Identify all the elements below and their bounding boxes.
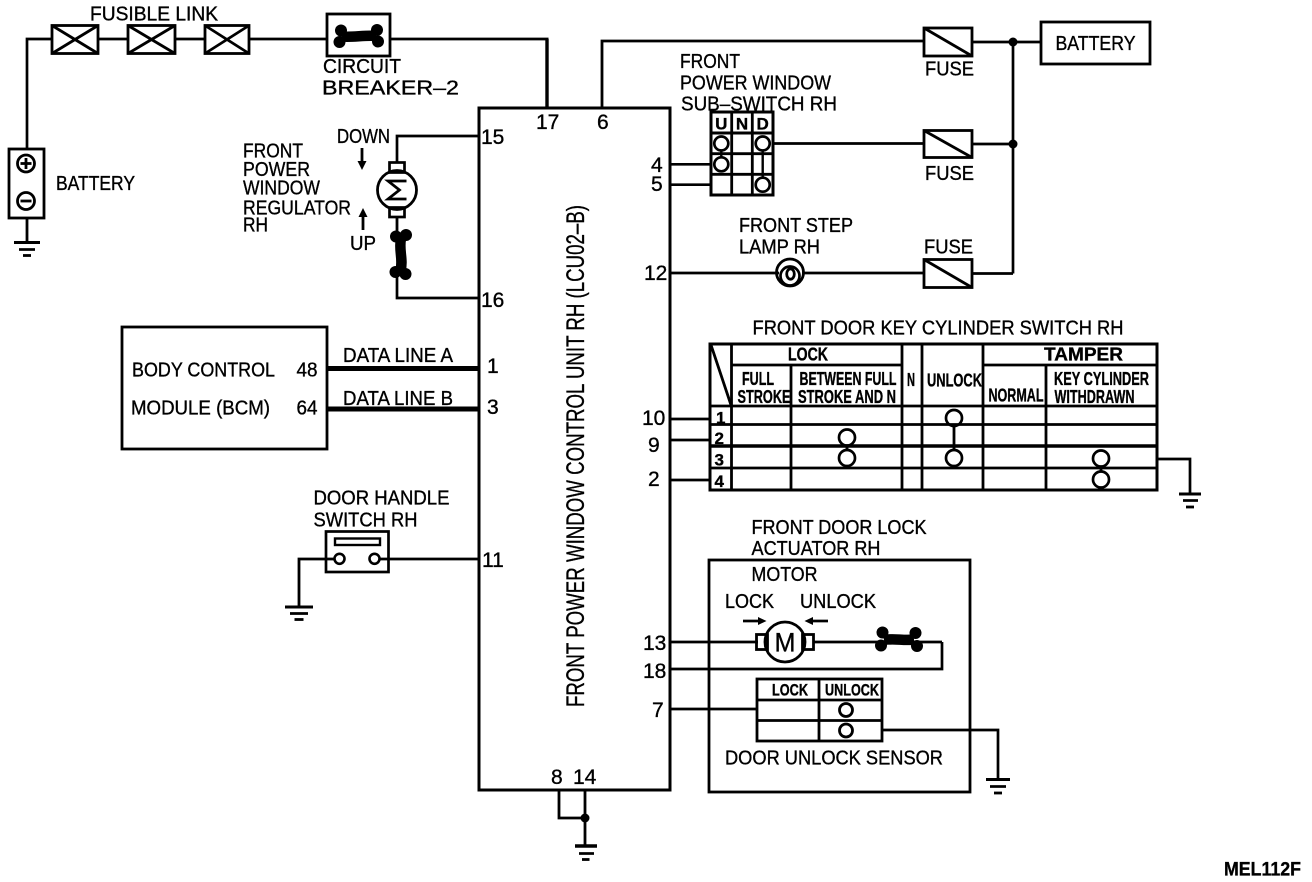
lock direction arrow xyxy=(743,617,767,625)
door unlock sensor table xyxy=(757,679,882,741)
svg-text:CIRCUIT: CIRCUIT xyxy=(323,56,401,78)
wire loop back to pin 18 xyxy=(670,642,942,669)
svg-text:BATTERY: BATTERY xyxy=(56,173,135,195)
up arrow xyxy=(359,208,368,230)
svg-text:3: 3 xyxy=(487,396,499,419)
svg-text:FUSIBLE LINK: FUSIBLE LINK xyxy=(90,4,219,26)
svg-text:MODULE (BCM): MODULE (BCM) xyxy=(131,398,270,420)
svg-text:UNLOCK: UNLOCK xyxy=(927,371,982,391)
contact link key cylinder column xyxy=(1100,467,1103,472)
svg-text:U: U xyxy=(715,115,727,134)
door handle switch SW1 xyxy=(326,532,389,573)
label FULL STROKE xyxy=(738,369,791,407)
svg-text:BODY CONTROL: BODY CONTROL xyxy=(132,360,275,382)
wire table row3 to ground xyxy=(1157,459,1190,493)
svg-text:5: 5 xyxy=(651,173,663,196)
svg-text:KEY CYLINDER: KEY CYLINDER xyxy=(1054,369,1149,389)
label KEY CYLINDER WITHDRAWN xyxy=(1054,369,1149,407)
wire switch to pin 11 xyxy=(379,558,480,561)
svg-text:8: 8 xyxy=(551,766,563,789)
wire xyxy=(98,38,128,41)
svg-text:WITHDRAWN: WITHDRAWN xyxy=(1055,387,1135,407)
svg-text:4: 4 xyxy=(715,472,725,491)
wire fuse 2 to bus xyxy=(972,143,1013,146)
svg-text:2: 2 xyxy=(648,468,660,491)
svg-text:MEL112F: MEL112F xyxy=(1224,860,1301,881)
svg-text:FUSE: FUSE xyxy=(925,59,974,81)
svg-text:11: 11 xyxy=(482,549,504,572)
wire pin 15 to regulator motor xyxy=(397,136,479,163)
svg-text:POWER WINDOW: POWER WINDOW xyxy=(680,73,831,95)
sub-switch contact U row1 xyxy=(714,137,728,151)
svg-text:ACTUATOR RH: ACTUATOR RH xyxy=(752,538,881,560)
front step lamp L1 xyxy=(777,259,804,286)
unlock direction arrow xyxy=(805,617,829,625)
wire pin 4 to sub-switch xyxy=(670,163,711,166)
wire lamp to fuse 3 xyxy=(802,272,924,275)
down arrow xyxy=(358,148,367,170)
svg-text:RH: RH xyxy=(243,215,268,237)
wire pin 13 to lock motor xyxy=(670,641,758,644)
battery bus wire xyxy=(1012,42,1015,274)
front door lock actuator box xyxy=(709,560,970,792)
svg-text:SWITCH RH: SWITCH RH xyxy=(314,510,418,532)
wire pin 7 to sensor xyxy=(670,708,757,711)
sub-switch contact D row1 xyxy=(756,137,770,151)
fusible link 2 xyxy=(128,26,175,54)
svg-text:FRONT DOOR KEY CYLINDER SWITCH: FRONT DOOR KEY CYLINDER SWITCH RH xyxy=(753,318,1124,340)
wire fuse 1 to battery xyxy=(972,41,1041,44)
wire pin 12 to lamp xyxy=(670,272,779,275)
wire switch to ground xyxy=(299,559,335,606)
svg-text:7: 7 xyxy=(652,699,664,722)
wire xyxy=(545,39,548,108)
label FRONT DOOR LOCK ACTUATOR RH xyxy=(752,517,928,560)
label FRONT POWER WINDOW REGULATOR RH xyxy=(243,141,351,237)
svg-text:BATTERY: BATTERY xyxy=(1056,33,1136,55)
svg-text:18: 18 xyxy=(643,660,666,683)
ground (door handle switch) xyxy=(285,607,313,620)
wire pin 6 to fuse 1 xyxy=(602,41,924,108)
junction node (fuse 2) xyxy=(1009,140,1018,149)
label FRONT STEP LAMP RH xyxy=(739,215,853,259)
svg-text:1: 1 xyxy=(716,409,725,428)
svg-text:FRONT STEP: FRONT STEP xyxy=(739,215,853,237)
svg-text:15: 15 xyxy=(481,126,504,149)
flexible link (actuator) xyxy=(875,627,923,653)
fuse F1 xyxy=(924,28,972,56)
wire pin 8 xyxy=(559,790,583,818)
svg-text:14: 14 xyxy=(573,766,597,789)
svg-text:FRONT POWER WINDOW CONTROL UNI: FRONT POWER WINDOW CONTROL UNIT RH (LCU0… xyxy=(562,205,590,707)
svg-text:STROKE: STROKE xyxy=(738,387,791,407)
sensor contact row1 xyxy=(840,704,853,717)
ground (control unit) xyxy=(575,846,597,860)
contact link between column xyxy=(846,446,849,451)
label FRONT POWER WINDOW SUB-SWITCH RH xyxy=(680,51,837,116)
svg-text:BREAKER–2: BREAKER–2 xyxy=(322,78,459,100)
svg-text:2: 2 xyxy=(715,429,724,448)
sub-switch contact D row3 xyxy=(756,178,770,192)
svg-text:LOCK: LOCK xyxy=(772,681,809,700)
junction node (ground) xyxy=(581,814,590,823)
data line A wire xyxy=(327,366,479,371)
contact between row3 xyxy=(839,450,855,466)
svg-text:UP: UP xyxy=(350,233,376,255)
svg-text:LOCK: LOCK xyxy=(725,591,775,613)
svg-text:TAMPER: TAMPER xyxy=(1044,345,1123,365)
wire pin 2 to table row4 xyxy=(670,479,710,482)
ground (battery) xyxy=(14,218,40,256)
svg-text:N: N xyxy=(907,370,915,390)
svg-text:DOOR UNLOCK SENSOR: DOOR UNLOCK SENSOR xyxy=(725,748,943,770)
svg-text:WINDOW: WINDOW xyxy=(243,178,320,200)
data line B wire xyxy=(327,407,479,412)
contact unlock row1 xyxy=(946,410,962,426)
ground (key cylinder switch) xyxy=(1179,494,1201,507)
svg-text:LAMP RH: LAMP RH xyxy=(739,237,820,259)
contact key cylinder row4 xyxy=(1093,472,1109,488)
wire circuit breaker to pin 17 xyxy=(390,38,549,41)
svg-text:FUSE: FUSE xyxy=(924,237,973,259)
motor M regulator xyxy=(378,163,417,218)
svg-text:12: 12 xyxy=(644,262,667,285)
fusible link 1 xyxy=(52,26,98,54)
label DOOR HANDLE SWITCH RH xyxy=(314,488,450,532)
svg-text:DOWN: DOWN xyxy=(337,126,390,148)
svg-text:10: 10 xyxy=(642,407,665,430)
svg-text:FULL: FULL xyxy=(742,369,774,389)
label CIRCUIT BREAKER-2 xyxy=(322,56,459,100)
fuse F2 xyxy=(924,131,972,158)
label MODULE (BCM) 64 xyxy=(131,398,318,420)
svg-text:NORMAL: NORMAL xyxy=(989,386,1044,406)
battery (left) xyxy=(9,149,44,218)
wire pin 5 to sub-switch xyxy=(670,183,711,186)
sub-switch link U column xyxy=(720,151,722,158)
fusible link 3 xyxy=(205,26,249,54)
wire pin 9 to table row2 xyxy=(670,439,710,442)
svg-text:9: 9 xyxy=(648,434,660,457)
wire fuse 3 to bus xyxy=(972,272,1013,275)
svg-text:UNLOCK: UNLOCK xyxy=(825,681,880,700)
fuse F3 xyxy=(924,260,972,288)
contact key cylinder row3 xyxy=(1093,451,1109,467)
lock actuator motor M2 xyxy=(757,622,814,662)
front power window sub-switch grid xyxy=(711,112,773,195)
wire sub-switch to fuse 2 xyxy=(773,142,924,145)
ground (door unlock sensor) xyxy=(986,780,1010,794)
svg-text:16: 16 xyxy=(481,289,504,312)
contact unlock row3 xyxy=(946,450,962,466)
control unit box U1 xyxy=(479,108,670,790)
flexible link (regulator) xyxy=(390,229,413,280)
svg-text:BETWEEN FULL: BETWEEN FULL xyxy=(800,369,897,389)
svg-text:UNLOCK: UNLOCK xyxy=(800,591,877,613)
wire pin 14 to ground xyxy=(584,790,587,845)
junction node (battery feed) xyxy=(1009,38,1018,47)
label BETWEEN FULL STROKE AND N xyxy=(798,369,897,407)
wire xyxy=(175,38,205,41)
wire sensor to ground xyxy=(882,730,998,779)
wire motor to loop xyxy=(814,641,943,644)
svg-text:N: N xyxy=(736,115,748,134)
sensor contact row2 xyxy=(840,724,853,737)
svg-text:STROKE AND N: STROKE AND N xyxy=(798,387,896,407)
sub-switch link D column xyxy=(762,151,764,178)
svg-text:DOOR HANDLE: DOOR HANDLE xyxy=(314,488,450,510)
contact between row2 xyxy=(839,430,855,446)
wire pin 10 to table row1 xyxy=(670,418,710,421)
svg-text:FRONT DOOR LOCK: FRONT DOOR LOCK xyxy=(752,517,928,539)
svg-text:3: 3 xyxy=(715,451,724,470)
svg-text:6: 6 xyxy=(597,111,609,134)
svg-text:M: M xyxy=(775,628,796,658)
key cylinder switch table frame xyxy=(710,344,1157,490)
svg-text:13: 13 xyxy=(643,632,666,655)
svg-text:17: 17 xyxy=(536,111,559,134)
body control module BCM box xyxy=(122,327,327,449)
wire motor to flexible link xyxy=(396,217,399,234)
sub-switch contact U row2 xyxy=(714,157,728,171)
svg-text:MOTOR: MOTOR xyxy=(752,564,818,586)
svg-text:1: 1 xyxy=(487,355,499,378)
svg-text:FUSE: FUSE xyxy=(925,163,974,185)
battery box (top right) xyxy=(1041,22,1150,64)
contact link unlock column xyxy=(953,426,956,450)
wire battery to fusible link chain xyxy=(27,39,52,150)
svg-text:48: 48 xyxy=(297,360,318,382)
circuit breaker CB-2 xyxy=(327,14,390,56)
svg-text:D: D xyxy=(757,115,769,134)
svg-text:DATA LINE A: DATA LINE A xyxy=(343,345,454,367)
svg-text:FRONT: FRONT xyxy=(680,51,740,73)
svg-text:64: 64 xyxy=(297,398,318,420)
svg-text:LOCK: LOCK xyxy=(788,345,828,365)
label BODY CONTROL 48 xyxy=(132,360,318,382)
wire fusible link to circuit breaker xyxy=(249,38,327,41)
wire regulator to pin 16 xyxy=(397,276,479,298)
